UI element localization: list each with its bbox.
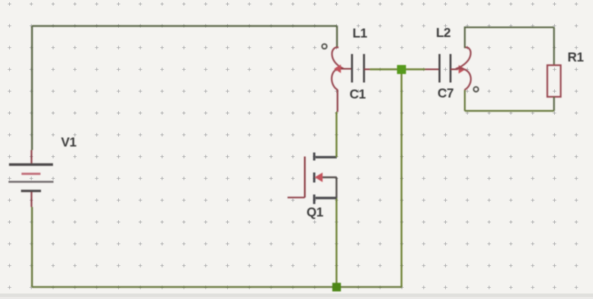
transistor Q1 channel bar source — [313, 195, 315, 205]
transistor Q1 drain lead — [316, 156, 337, 158]
battery V1 plate long lower — [9, 181, 54, 183]
svg-text:Q1: Q1 — [307, 205, 324, 220]
svg-text:L2: L2 — [436, 25, 451, 40]
photo bottom shadow — [0, 294, 593, 297]
svg-text:R1: R1 — [568, 50, 584, 65]
inductor L1 polarity dot — [322, 44, 327, 49]
wire loop right lower — [553, 97, 555, 111]
wire bottom — [32, 286, 402, 288]
wire left lower — [31, 207, 33, 287]
capacitor C1 plate right — [363, 54, 365, 83]
capacitor C1 plate left — [351, 54, 353, 83]
wire loop left top — [464, 27, 466, 48]
wire node drop — [401, 74, 403, 287]
svg-text:C1: C1 — [350, 87, 366, 102]
capacitor C1 lead left — [341, 68, 351, 70]
wire loop left bottom — [464, 90, 466, 111]
battery V1 plate short red — [22, 173, 41, 175]
battery V1 plate short dark — [21, 190, 41, 192]
transistor Q1 gate bar — [304, 157, 306, 198]
wire loop right upper — [553, 27, 555, 65]
svg-text:V1: V1 — [61, 135, 76, 150]
wire node to C7 — [406, 68, 425, 70]
battery V1 pin bottom — [31, 192, 33, 207]
battery V1 plate long top — [9, 163, 53, 166]
capacitor C7 plate left — [439, 54, 441, 83]
transistor Q1 channel bar body — [313, 173, 315, 183]
inductor L1 pin bottom — [337, 90, 339, 113]
wire L1 top drop — [336, 26, 338, 48]
transistor Q1 body lead — [321, 177, 337, 198]
svg-text:C7: C7 — [438, 86, 454, 101]
transistor Q1 gate lead — [288, 197, 305, 199]
transistor Q1 channel bar drain — [313, 153, 315, 161]
inductor L2 coil — [456, 47, 471, 90]
capacitor C7 lead left — [425, 68, 439, 70]
svg-text:L1: L1 — [353, 26, 368, 41]
battery V1 pin top — [31, 150, 33, 163]
transistor Q1 source lead — [316, 197, 337, 199]
capacitor C1 lead right — [364, 68, 371, 70]
wire left upper — [31, 26, 33, 150]
transistor Q1 body arrow — [316, 173, 323, 181]
wire source drop — [336, 198, 338, 287]
resistor R1 — [547, 65, 560, 97]
wire drain riser — [336, 112, 338, 157]
wire C1 to node — [370, 68, 397, 70]
wire loop bottom — [465, 110, 554, 112]
capacitor C7 arrow — [459, 66, 465, 73]
junction node — [397, 65, 406, 74]
inductor L1 coil — [332, 47, 344, 89]
capacitor C7 plate right — [450, 54, 452, 83]
inductor L2 polarity dot — [474, 87, 479, 92]
junction bottom — [332, 283, 341, 292]
wire top — [32, 25, 337, 27]
capacitor C1 arrow — [335, 65, 341, 72]
capacitor C7 lead right — [451, 68, 459, 70]
wire loop top — [465, 26, 554, 28]
